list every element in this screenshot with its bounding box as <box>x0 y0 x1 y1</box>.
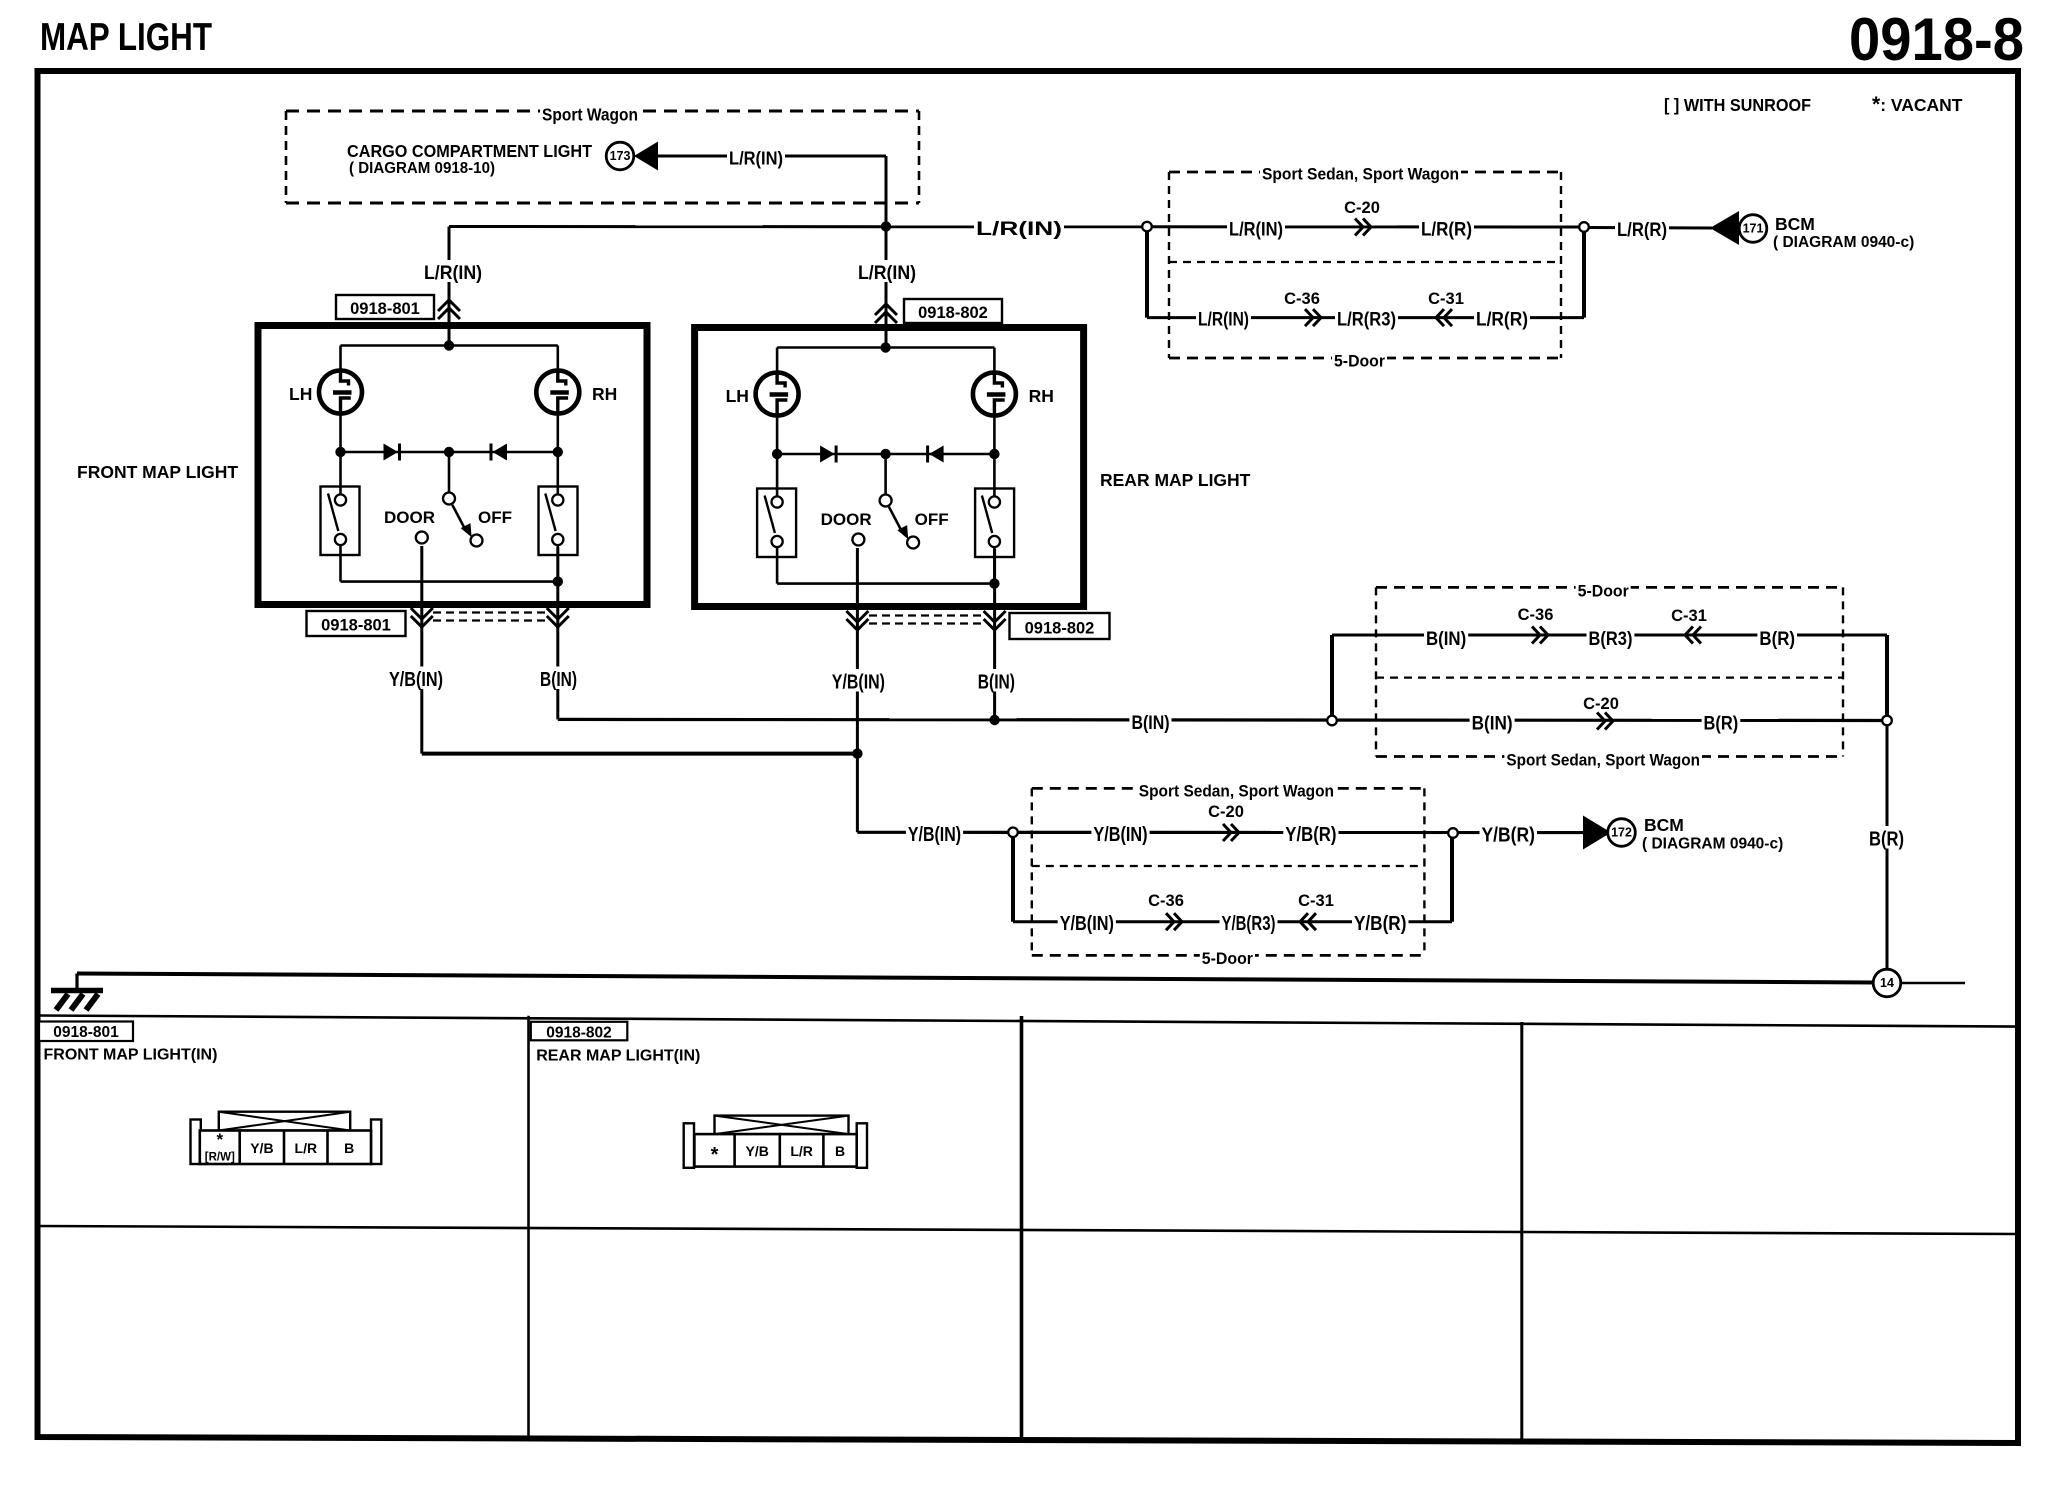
bulb LH (front map light) <box>319 371 362 414</box>
svg-text:L/R(IN): L/R(IN) <box>1198 309 1249 331</box>
svg-text:OFF: OFF <box>915 510 949 529</box>
svg-text:L/R: L/R <box>790 1143 813 1159</box>
svg-text:C-20: C-20 <box>1344 199 1380 217</box>
node Y/B junction <box>852 748 862 758</box>
svg-text:C-36: C-36 <box>1284 290 1320 308</box>
wire Y/B row C-20 <box>1091 822 1149 845</box>
connector face rear map light <box>684 1123 694 1168</box>
connector circle 173 <box>606 142 634 170</box>
svg-text:0918-801: 0918-801 <box>53 1024 119 1041</box>
dashed option box Sport Wagon <box>286 110 919 113</box>
bulb RH (rear map light) <box>973 373 1016 416</box>
svg-text:0918-801: 0918-801 <box>321 617 391 635</box>
diode D1 (front map light) <box>384 444 399 461</box>
svg-text:B: B <box>344 1140 354 1156</box>
svg-text:Y/B(IN): Y/B(IN) <box>389 669 443 691</box>
front map light box outline <box>258 326 647 605</box>
svg-text:5-Door: 5-Door <box>1334 351 1385 370</box>
ground symbol <box>51 988 103 994</box>
svg-text:L/R(IN): L/R(IN) <box>976 218 1062 240</box>
svg-text:B(IN): B(IN) <box>540 669 577 691</box>
svg-text:B(IN): B(IN) <box>978 672 1015 694</box>
svg-text:DOOR: DOOR <box>821 510 872 529</box>
svg-text:LH: LH <box>289 384 312 404</box>
wire Y/B link front to rear <box>422 752 858 756</box>
node open junction left (L/R) <box>1142 222 1152 232</box>
connector chevrons out of front map light <box>411 608 433 627</box>
wire B(IN) bus <box>558 719 1887 720</box>
svg-text:L/R(IN): L/R(IN) <box>729 147 783 168</box>
svg-text:*: * <box>216 1130 223 1149</box>
svg-text:L/R(IN): L/R(IN) <box>1229 219 1283 241</box>
connector tag 0918-802 (table) <box>531 1022 628 1041</box>
svg-text:C-31: C-31 <box>1671 607 1707 625</box>
svg-text:14: 14 <box>1880 976 1894 990</box>
connector tag 0918-801 (table) <box>39 1022 133 1042</box>
svg-text:BCM: BCM <box>1644 815 1684 835</box>
svg-text:( DIAGRAM 0940-c): ( DIAGRAM 0940-c) <box>1773 234 1914 251</box>
wire B(IN) from front map light <box>556 547 559 719</box>
svg-text:C-36: C-36 <box>1148 892 1184 910</box>
arrow into cargo compartment light <box>634 142 658 171</box>
wire B(IN) from rear map light <box>993 549 996 721</box>
svg-text:( DIAGRAM 0940-c): ( DIAGRAM 0940-c) <box>1642 836 1783 853</box>
diode D2 (rear map light) <box>929 446 944 463</box>
dashed option box Sport Sedan Sport Wagon / 5-Door (Y/B) <box>1032 787 1425 790</box>
connector tag 0918-802 (top) <box>904 299 1002 323</box>
svg-text:LH: LH <box>726 386 749 406</box>
wire L/R(IN) drop to front map light <box>448 227 451 348</box>
svg-text:Sport Sedan, Sport Wagon: Sport Sedan, Sport Wagon <box>1262 164 1459 183</box>
wire B row C-36/C-31 (5-door) <box>1330 635 1334 716</box>
svg-text:B(IN): B(IN) <box>1472 713 1513 735</box>
svg-text:L/R: L/R <box>295 1140 318 1156</box>
svg-text:REAR MAP LIGHT: REAR MAP LIGHT <box>1100 470 1251 490</box>
svg-text:DOOR: DOOR <box>384 508 435 527</box>
svg-text:B(IN): B(IN) <box>1131 712 1169 734</box>
svg-text:C-36: C-36 <box>1518 606 1554 624</box>
svg-text:0918-801: 0918-801 <box>350 300 420 318</box>
svg-text:Y/B: Y/B <box>250 1140 273 1156</box>
wire B row C-20 <box>1470 710 1515 732</box>
node open junction Y/B right <box>1448 828 1458 838</box>
svg-text:Y/B(IN): Y/B(IN) <box>832 672 885 694</box>
svg-text:FRONT MAP LIGHT: FRONT MAP LIGHT <box>77 462 238 482</box>
svg-text:Y/B(IN): Y/B(IN) <box>908 824 961 846</box>
svg-text:Sport Wagon: Sport Wagon <box>542 104 638 124</box>
svg-text:FRONT MAP LIGHT(IN): FRONT MAP LIGHT(IN) <box>44 1047 218 1064</box>
connector chevron into front map light <box>438 300 460 319</box>
connector tag 0918-802 (bottom) <box>1010 613 1110 639</box>
svg-text:Sport Sedan, Sport Wagon: Sport Sedan, Sport Wagon <box>1506 750 1700 769</box>
svg-text:( DIAGRAM 0918-10): ( DIAGRAM 0918-10) <box>349 160 495 177</box>
svg-text:B(IN): B(IN) <box>1426 628 1466 650</box>
svg-text:Y/B(R): Y/B(R) <box>1354 913 1407 935</box>
svg-text:Y/B(R): Y/B(R) <box>1481 825 1535 847</box>
switch door RH (rear map light) <box>975 489 1014 558</box>
wire internal bottom rail <box>341 580 558 583</box>
svg-text:B: B <box>835 1143 845 1159</box>
svg-text:C-20: C-20 <box>1208 803 1244 821</box>
rear map light box outline <box>695 328 1084 607</box>
arrow to BCM 172 <box>1583 816 1611 850</box>
svg-text:173: 173 <box>610 149 631 163</box>
switch rotary DOOR/OFF (front map light) <box>448 452 451 493</box>
svg-text:B(R): B(R) <box>1869 829 1904 851</box>
svg-text:5-Door: 5-Door <box>1578 581 1629 600</box>
svg-text:C-31: C-31 <box>1428 290 1464 308</box>
connector chevron into rear map light <box>875 304 897 323</box>
svg-text:*: VACANT: *: VACANT <box>1872 93 1963 116</box>
svg-text:B(R3): B(R3) <box>1589 628 1633 650</box>
svg-text:172: 172 <box>1611 826 1632 840</box>
dashed option box 5-Door / Sport Sedan Sport Wagon (B) <box>1376 586 1843 589</box>
wire diode rail <box>339 414 342 452</box>
svg-text:0918-8: 0918-8 <box>1849 6 2024 73</box>
arrow to BCM 171 <box>1710 211 1739 245</box>
svg-text:OFF: OFF <box>478 508 512 527</box>
wire L/R(IN) to cargo compartment light <box>656 155 886 158</box>
switch rotary DOOR/OFF (rear map light) <box>884 454 887 495</box>
dashed option box Sport Sedan Sport Wagon / 5-Door (L/R) <box>1169 171 1561 174</box>
svg-text:L/R(IN): L/R(IN) <box>424 262 482 284</box>
svg-text:5-Door: 5-Door <box>1202 949 1254 968</box>
svg-text:RH: RH <box>592 384 617 404</box>
bulb RH (front map light) <box>536 371 579 414</box>
svg-text:BCM: BCM <box>1775 214 1815 234</box>
diode D2 (front map light) <box>493 444 508 461</box>
wire diode rail <box>776 416 779 454</box>
svg-text:171: 171 <box>1743 222 1764 236</box>
svg-text:B(R): B(R) <box>1704 713 1739 735</box>
connector circle 171 <box>1739 215 1767 243</box>
connector circle 172 <box>1608 819 1636 847</box>
svg-text:L/R(R): L/R(R) <box>1476 309 1528 331</box>
node junction at rear map light feed <box>881 221 891 231</box>
svg-text:B(R): B(R) <box>1759 628 1795 650</box>
wire internal top rail <box>341 344 558 347</box>
svg-text:RH: RH <box>1029 386 1054 406</box>
wire L/R(IN) drop to rear map light <box>885 227 888 350</box>
svg-text:*: * <box>711 1144 719 1166</box>
wire L/R(R) to BCM <box>1588 226 1712 230</box>
wire Y/B row C-36/C-31 (5-door) <box>1011 837 1015 922</box>
switch door LH (rear map light) <box>757 489 796 558</box>
connector face front map light <box>191 1120 201 1165</box>
svg-text:[R/W]: [R/W] <box>205 1152 235 1164</box>
connector chevrons out of rear map light <box>846 611 868 630</box>
node open junction B left <box>1327 716 1337 726</box>
ground joint circle 14 <box>1873 969 1901 997</box>
node top rail junction <box>444 340 454 350</box>
bulb LH (rear map light) <box>756 373 799 416</box>
svg-text:L/R(R): L/R(R) <box>1421 219 1472 241</box>
svg-text:C-31: C-31 <box>1298 892 1334 910</box>
wire Y/B(IN) feed <box>857 831 1583 834</box>
svg-text:Y/B: Y/B <box>746 1143 769 1159</box>
node open junction right (L/R) <box>1579 222 1589 232</box>
svg-text:[ ] WITH SUNROOF: [ ] WITH SUNROOF <box>1664 95 1811 115</box>
connector tag 0918-801 (bottom) <box>307 611 406 636</box>
wire internal top rail <box>777 346 994 349</box>
switch door RH (front map light) <box>539 487 578 556</box>
node open junction Y/B left <box>1008 828 1018 838</box>
svg-text:0918-802: 0918-802 <box>1025 620 1095 638</box>
svg-text:0918-802: 0918-802 <box>546 1025 612 1042</box>
svg-text:C-20: C-20 <box>1583 695 1619 713</box>
node open junction B right <box>1882 716 1892 726</box>
diode D1 (rear map light) <box>820 446 835 463</box>
svg-text:Sport Sedan, Sport Wagon: Sport Sedan, Sport Wagon <box>1139 781 1334 800</box>
wire Y/B(IN) from rear map light <box>856 548 859 832</box>
wire Y/B(IN) from front map light <box>420 546 423 754</box>
svg-text:Y/B(IN): Y/B(IN) <box>1060 913 1114 935</box>
svg-text:REAR MAP LIGHT(IN): REAR MAP LIGHT(IN) <box>536 1048 700 1065</box>
wire L/R row C-36/C-31 (5-door) <box>1145 227 1149 318</box>
svg-text:MAP LIGHT: MAP LIGHT <box>40 16 212 59</box>
wire ground bus <box>77 974 1874 983</box>
svg-text:L/R(R3): L/R(R3) <box>1337 309 1396 331</box>
svg-text:0918-802: 0918-802 <box>918 304 988 322</box>
wire B(R) to ground joint <box>1886 725 1889 969</box>
connector tag 0918-801 (top) <box>336 295 434 319</box>
svg-text:CARGO COMPARTMENT LIGHT: CARGO COMPARTMENT LIGHT <box>347 141 592 161</box>
svg-text:Y/B(IN): Y/B(IN) <box>1093 824 1147 846</box>
node B junction rear <box>989 715 999 725</box>
table grid <box>37 1016 2018 1027</box>
svg-text:L/R(IN): L/R(IN) <box>858 262 916 284</box>
node top rail junction <box>880 342 890 352</box>
wire L/R(IN) bus <box>449 225 1584 229</box>
switch door LH (front map light) <box>321 487 360 556</box>
svg-text:Y/B(R): Y/B(R) <box>1285 824 1336 846</box>
wire L/R row C-20 <box>1227 217 1285 239</box>
svg-text:Y/B(R3): Y/B(R3) <box>1222 913 1276 935</box>
svg-text:L/R(R): L/R(R) <box>1617 219 1667 241</box>
wire internal bottom rail <box>777 582 994 585</box>
